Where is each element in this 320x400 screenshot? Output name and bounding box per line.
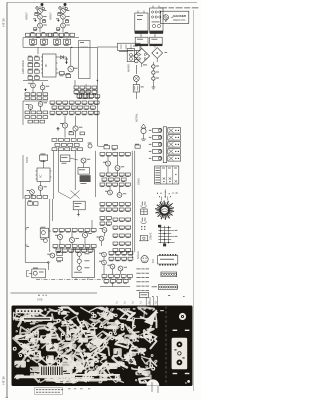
note text <box>160 6 198 9</box>
capacitor C10 <box>24 89 27 92</box>
resistor R158 <box>119 226 124 230</box>
capacitor C6 <box>56 18 60 21</box>
resistor R139 <box>88 249 93 253</box>
resistor R93 <box>135 144 140 148</box>
resistor R64 <box>65 106 70 110</box>
wire <box>97 99 104 147</box>
transistor TR11 <box>38 102 47 107</box>
resistor R7 <box>65 19 68 22</box>
resistor R170 <box>57 258 63 263</box>
resistor R96 <box>31 196 36 199</box>
svg-text:DRIVE: DRIVE <box>150 232 153 240</box>
input pair <box>28 200 38 205</box>
svg-text:SCALE: SCALE <box>137 251 140 259</box>
resistor R109 <box>119 173 124 177</box>
capacitor C8 <box>65 32 69 37</box>
PCB leader <box>149 297 151 311</box>
connector PL2 <box>152 285 178 290</box>
resistor R56 <box>63 101 68 105</box>
resistor R126 <box>91 229 96 233</box>
resistor R117 <box>113 183 118 187</box>
electrolytic C18 <box>80 175 91 184</box>
wire <box>138 6 159 14</box>
resistor R171 <box>109 252 114 256</box>
resistor R67 <box>84 106 89 110</box>
resistor R83 <box>78 139 83 142</box>
resistor R166 <box>113 249 118 253</box>
transistor TR7 <box>68 66 78 72</box>
transistor TR15 <box>27 190 35 195</box>
wire <box>39 6 41 32</box>
resistor R61 <box>94 101 99 105</box>
transistor TR12 <box>60 123 68 128</box>
transistor TR20 <box>117 193 126 198</box>
transistor TR18 <box>115 166 124 171</box>
PCB leader pins <box>152 382 158 393</box>
PCB notch <box>147 379 160 385</box>
transistor TR8 <box>28 83 35 88</box>
capacitor C11 <box>151 65 159 68</box>
PCB leader <box>157 297 159 311</box>
wire <box>23 101 48 125</box>
resistor R97 <box>37 196 42 199</box>
resistor R156 <box>126 218 131 222</box>
transistor TR29 <box>107 264 115 269</box>
node A <box>71 47 72 48</box>
resistor R182 <box>121 275 126 279</box>
potentiometer VR2 <box>41 38 48 46</box>
PCB foil pattern <box>12 306 193 387</box>
output socket group <box>72 249 94 280</box>
resistor R89 <box>58 148 63 151</box>
resistor R130 <box>72 245 77 249</box>
resistor R185 <box>110 280 115 284</box>
resistor R21 <box>60 72 65 77</box>
resistor R168 <box>126 249 131 253</box>
resistor R16 <box>35 62 40 66</box>
resistor R18 <box>35 69 40 74</box>
svg-text:TAPE: TAPE <box>26 156 29 163</box>
resistor R63 <box>58 106 63 110</box>
resistor R124 <box>79 229 84 233</box>
resistor R46 <box>43 111 48 114</box>
resistor R176 <box>115 257 120 261</box>
resistor R92 <box>78 148 83 151</box>
transistor TR2 <box>38 14 47 19</box>
resistor R107 <box>106 173 111 177</box>
resistor R151 <box>106 217 111 221</box>
PCB label strip <box>22 317 52 321</box>
speaker icon <box>139 235 148 240</box>
resistor R50 <box>43 116 48 119</box>
resistor R86 <box>68 143 73 146</box>
resistor R167 <box>119 249 124 253</box>
coil T3 <box>80 92 90 99</box>
capacitor C15 <box>88 143 92 148</box>
transistor TR9 <box>40 85 49 90</box>
pilot lamp LP1 <box>133 76 139 82</box>
resistor R122 <box>66 229 71 233</box>
earphone jack icon <box>141 202 147 208</box>
svg-text:3 I3I: 3 I3I <box>37 297 43 301</box>
resistor R5 <box>31 32 35 37</box>
resistor R145 <box>100 208 105 212</box>
resistor R69 <box>50 111 55 115</box>
resistor R110 <box>125 173 130 177</box>
resistor R14 <box>35 56 40 61</box>
resistor R2 <box>42 19 45 22</box>
PCB leader <box>145 297 147 311</box>
resistor R27 <box>25 97 30 100</box>
capacitor C4 <box>42 32 46 37</box>
resistor R129 <box>66 245 71 249</box>
transistor TR19 <box>105 190 112 195</box>
resistor R120 <box>53 229 58 233</box>
DIN socket icon <box>141 218 147 224</box>
resistor R133 <box>91 245 96 249</box>
resistor R79 <box>52 139 57 142</box>
resistor R142 <box>113 203 118 207</box>
resistor R31 <box>74 86 79 90</box>
resistor R186 <box>117 280 122 284</box>
resistor R118 <box>119 183 124 187</box>
svg-text:RADIO LTD: RADIO LTD <box>173 19 185 22</box>
caption ticks <box>68 387 90 390</box>
driver stage <box>32 268 46 278</box>
resistor R62 <box>52 106 57 110</box>
capacitor C14 <box>56 127 59 131</box>
wire <box>102 199 135 258</box>
resistor R82 <box>71 139 76 142</box>
switch wafer S6b <box>168 149 181 154</box>
transistor TR24 <box>99 228 107 233</box>
transistor TR14 <box>38 186 47 191</box>
resistor R146 <box>106 208 111 212</box>
wire <box>100 257 130 287</box>
wire <box>65 116 76 138</box>
tone network <box>73 201 85 216</box>
resistor R169 <box>57 251 63 256</box>
resistor R34 <box>92 86 97 90</box>
resistor R84 <box>55 143 60 146</box>
wire <box>23 155 44 199</box>
resistor R147 <box>113 208 118 212</box>
resistor R102 <box>106 153 111 157</box>
wire <box>58 47 71 76</box>
PCB edge connector <box>40 366 64 377</box>
diode D3 <box>61 55 64 59</box>
transistor TR27 <box>99 252 106 257</box>
resistor R26 <box>43 93 48 96</box>
wire <box>75 47 97 99</box>
resistor R38 <box>92 90 97 94</box>
diode D1 <box>36 6 45 10</box>
resistor R81 <box>65 139 70 142</box>
resistor R119 <box>125 183 130 187</box>
resistor R4 <box>26 33 30 36</box>
resistor R91 <box>71 148 76 151</box>
wire <box>23 37 79 39</box>
svg-text:AMPLIFIER: AMPLIFIER <box>21 60 25 74</box>
voltage selector S2 <box>118 43 141 52</box>
resistor R164 <box>119 242 124 246</box>
wire <box>25 199 29 262</box>
dial drum <box>155 197 174 220</box>
wire <box>60 220 92 245</box>
transistor TR3 <box>38 23 47 28</box>
bias network <box>40 227 51 243</box>
screening can <box>79 41 91 79</box>
transistor TR6 <box>61 23 70 28</box>
svg-text:MAINS: MAINS <box>128 64 131 72</box>
resistor R17 <box>28 69 33 74</box>
resistor R105 <box>125 153 130 157</box>
wire <box>108 151 135 199</box>
resistor R43 <box>25 111 30 114</box>
resistor R135 <box>62 249 67 253</box>
capacitor C12 <box>152 71 159 74</box>
resistor R11 <box>47 33 51 36</box>
resistor R19 <box>28 75 33 79</box>
wire <box>37 47 39 54</box>
capacitor C5 <box>64 3 67 8</box>
PCB blank zone <box>158 307 192 386</box>
capacitor C3 <box>36 33 40 38</box>
switch wafer S6a <box>149 149 162 153</box>
transistor TR13 <box>73 126 83 131</box>
svg-text:AERIAL: AERIAL <box>136 112 139 122</box>
op-amp IC1 <box>41 54 58 77</box>
resistor R71 <box>63 111 68 115</box>
resistor R111 <box>102 178 107 182</box>
resistor R20 <box>35 75 40 79</box>
capacitor C1 <box>41 3 44 8</box>
resistor R30 <box>43 97 48 100</box>
wire <box>23 80 48 93</box>
switch wafer S7b <box>168 156 181 161</box>
ticks <box>152 295 185 297</box>
resistor R112 <box>108 178 113 182</box>
resistor R98 <box>43 196 48 199</box>
resistor R24 <box>31 93 36 96</box>
bridge rectifier MR2 <box>152 48 167 59</box>
switch wafer S5a <box>149 142 162 146</box>
resistor R154 <box>113 218 118 222</box>
PCB arrow <box>144 309 158 326</box>
resistor R39 <box>77 95 82 99</box>
resistor R165 <box>126 242 131 246</box>
resistor R58 <box>76 101 81 105</box>
resistor R23 <box>25 93 30 96</box>
resistor R132 <box>85 245 90 249</box>
resistor R174 <box>128 252 133 256</box>
transformer T2b <box>150 37 163 46</box>
resistor R10 <box>54 32 58 37</box>
capacitor C7 <box>59 33 63 38</box>
serial box <box>139 292 148 297</box>
PCB mounting hole <box>179 313 186 320</box>
resistor R87 <box>74 143 79 146</box>
PCB leader <box>153 297 155 311</box>
resistor R144 <box>126 203 131 207</box>
resistor R160 <box>113 234 118 238</box>
svg-text:B: B <box>185 381 187 385</box>
resistor R150 <box>100 217 105 221</box>
switch wafer S3b <box>168 128 181 133</box>
capacitor C9 <box>65 59 68 64</box>
resistor R131 <box>79 245 84 249</box>
resistor R183 <box>127 275 132 279</box>
transistor TR23 <box>82 232 91 237</box>
resistor R32 <box>80 86 85 90</box>
resistor R66 <box>78 106 83 110</box>
transformer T1 primary <box>135 13 148 34</box>
resistor R127 <box>53 245 58 249</box>
wire <box>26 271 31 277</box>
resistor R179 <box>102 275 107 279</box>
resistor R6 <box>58 12 61 15</box>
transistor TR28 <box>99 260 106 265</box>
switch S1 <box>133 85 144 93</box>
switch wafer S7a <box>149 156 162 160</box>
transistor TR4 <box>61 9 70 14</box>
wire <box>59 158 84 199</box>
resistor R54 <box>50 101 55 105</box>
resistor R134 <box>56 249 61 253</box>
resistor R106 <box>100 173 105 177</box>
resistor R68 <box>90 106 95 110</box>
alignment marks <box>157 190 178 199</box>
resistor R99 <box>61 155 70 164</box>
node B <box>97 80 98 81</box>
resistor R128 <box>59 245 64 249</box>
clock face icon <box>141 256 148 263</box>
resistor R45 <box>37 111 42 114</box>
resistor R121 <box>59 229 64 233</box>
resistor R148 <box>119 208 124 212</box>
PCB tick marks <box>160 310 189 374</box>
resistor R173 <box>122 252 127 256</box>
switch spindle <box>163 127 166 163</box>
resistor R162 <box>126 234 131 238</box>
wire <box>32 60 34 63</box>
resistor R77 <box>69 131 74 135</box>
resistor R143 <box>119 203 124 207</box>
bracket overlay <box>172 338 188 370</box>
svg-text:GANG: GANG <box>138 178 141 185</box>
svg-text:INPUT: INPUT <box>25 12 29 20</box>
resistor R40 <box>83 95 88 99</box>
wire <box>49 199 51 252</box>
svg-text:HT 30: HT 30 <box>2 18 6 27</box>
transistor TR25 <box>96 236 104 241</box>
wire <box>11 293 98 296</box>
resistor R137 <box>75 249 80 253</box>
PCB corner pad <box>187 380 190 383</box>
wire <box>152 62 154 84</box>
PCB fold line <box>165 307 167 386</box>
resistor R149 <box>126 208 131 212</box>
resistor R100 <box>78 168 89 175</box>
potentiometer VR1 <box>30 38 37 46</box>
resistor R138 <box>82 249 87 253</box>
resistor R90 <box>65 148 70 151</box>
resistor R44 <box>31 111 36 114</box>
mains dropper R40 <box>135 51 139 74</box>
resistor R123 <box>72 229 77 233</box>
resistor R159 <box>126 226 131 230</box>
resistor R3 <box>33 28 36 31</box>
wire <box>23 46 97 48</box>
resistor R136 <box>69 249 74 253</box>
resistor R13 <box>28 56 33 61</box>
switch wafer S4b <box>168 135 181 140</box>
resistor R161 <box>119 234 124 238</box>
resistor R12 <box>70 33 74 36</box>
ground <box>152 84 156 89</box>
bridge rectifier MR1 <box>134 48 150 65</box>
wire <box>135 81 137 99</box>
transistor TR21 <box>55 234 63 239</box>
resistor R175 <box>109 257 114 261</box>
transformer T2a <box>135 37 148 46</box>
resistor R65 <box>71 106 76 110</box>
transistor TR22 <box>69 237 78 242</box>
resistor R114 <box>121 178 126 182</box>
resistor R8 <box>56 28 59 31</box>
resistor R103 <box>113 153 118 157</box>
transistor TR5 <box>61 14 70 19</box>
resistor R75 <box>88 111 93 115</box>
resistor R1 <box>35 12 38 15</box>
fuse FS1 <box>127 49 134 62</box>
fuse holder icon <box>141 209 148 215</box>
resistor R29 <box>37 97 42 100</box>
resistor R28 <box>31 97 36 100</box>
voltage table <box>155 166 179 184</box>
PCB top pads <box>101 308 104 309</box>
resistor R177 <box>122 257 127 261</box>
wire <box>54 151 96 199</box>
resistor R181 <box>115 275 120 279</box>
resistor R52 <box>34 120 39 123</box>
svg-text:INPUT: INPUT <box>49 12 53 20</box>
wire <box>97 46 117 48</box>
resistor R95 <box>25 196 30 199</box>
svg-text:HACKER: HACKER <box>173 14 187 18</box>
transistor TR10 <box>26 104 33 109</box>
resistor R42 <box>95 95 100 99</box>
resistor R116 <box>106 183 111 187</box>
resistor R72 <box>69 111 74 115</box>
resistor R36 <box>80 90 85 94</box>
capacitor C13 <box>152 77 159 80</box>
capacitor C2 <box>33 18 37 21</box>
resistor R22 <box>66 73 71 78</box>
resistor R104 <box>119 153 124 157</box>
resistor R108 <box>113 173 118 177</box>
resistor R51 <box>28 120 33 123</box>
transistor TR16 <box>81 158 90 163</box>
resistor R41 <box>89 95 94 99</box>
resistor R140 <box>100 203 105 207</box>
resistor R78 <box>80 132 85 135</box>
resistor R35 <box>74 90 79 94</box>
svg-text:IC3: IC3 <box>152 259 155 263</box>
resistor R184 <box>104 280 109 284</box>
resistor R49 <box>37 116 42 119</box>
resistor R115 <box>100 183 105 187</box>
